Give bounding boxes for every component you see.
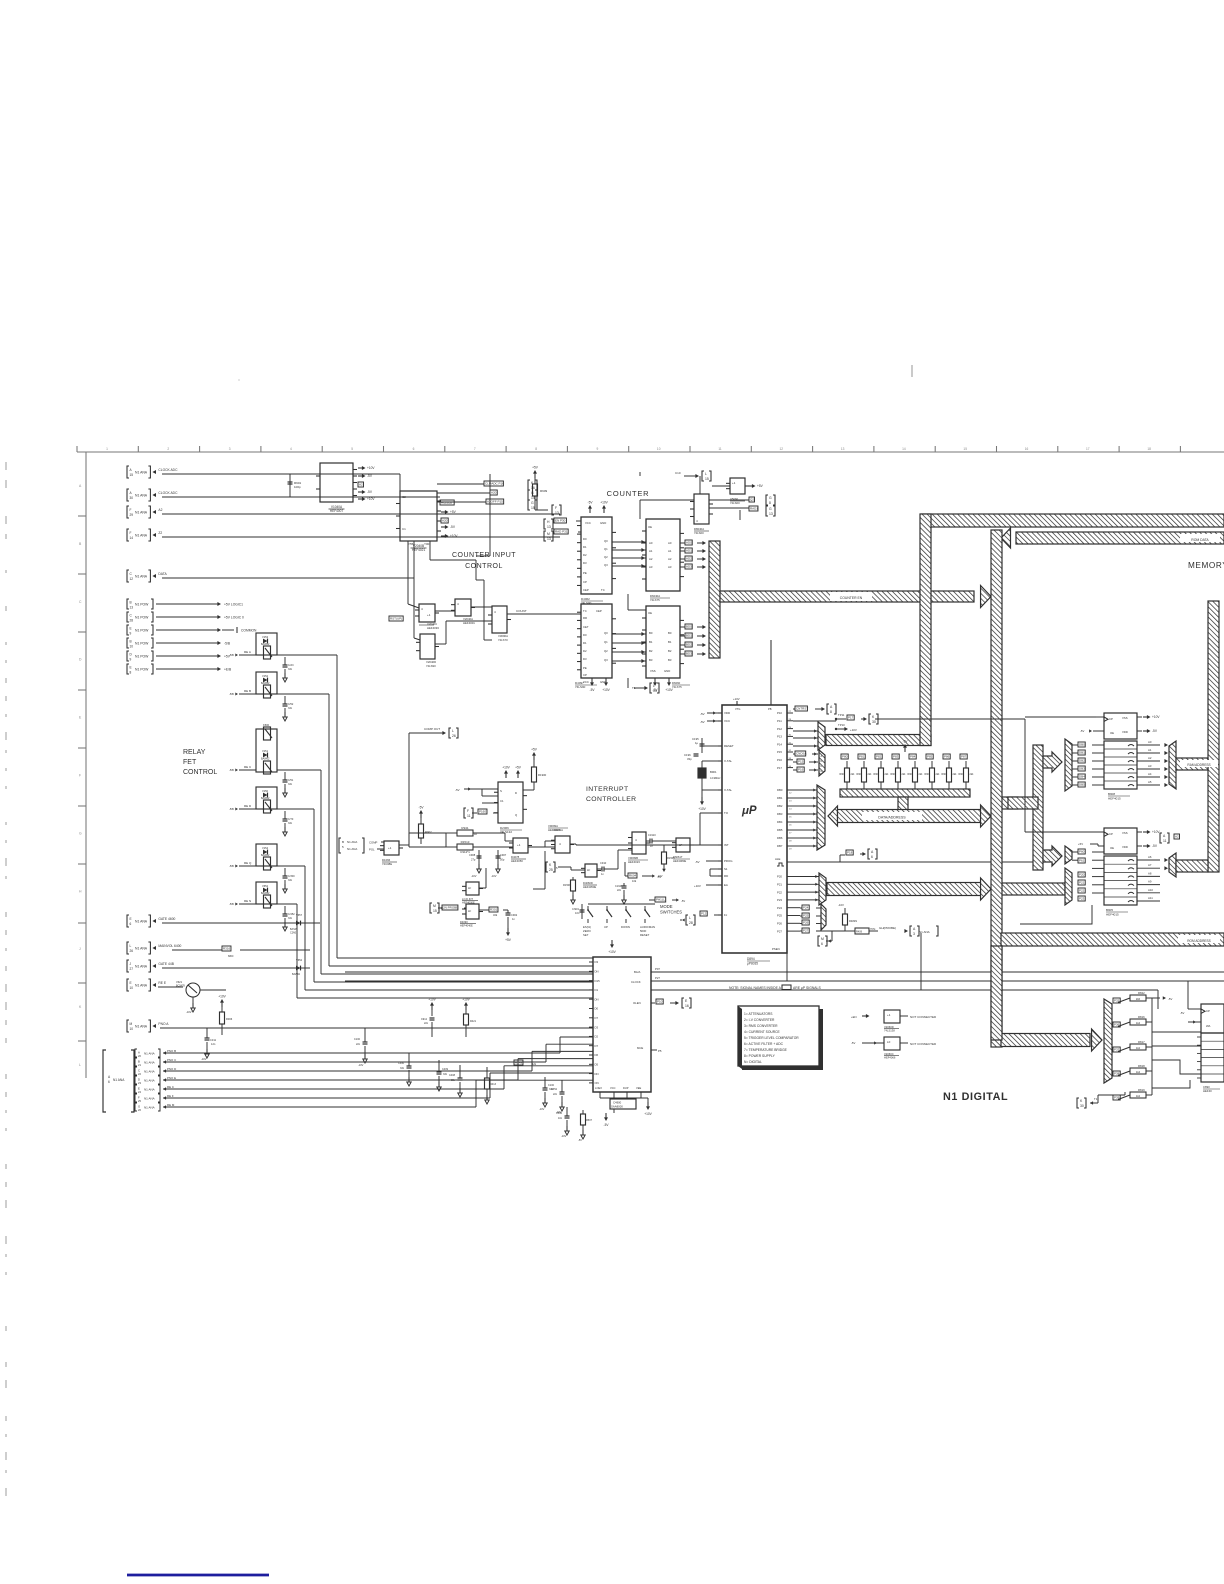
caps C100 area <box>364 1028 366 1042</box>
svg-text:R413: R413 <box>490 1083 497 1086</box>
connector GATE 4600 [E/6] <box>127 915 129 927</box>
svg-text:P24: P24 <box>803 906 809 910</box>
svg-text:N1 ANA: N1 ANA <box>113 1078 125 1082</box>
svg-text:RAD P31: RAD P31 <box>555 530 568 534</box>
svg-text:A10: A10 <box>1148 888 1153 892</box>
svg-text:E: E <box>138 1087 140 1091</box>
svg-text:+E/B: +E/B <box>224 668 232 672</box>
svg-text:PNO E: PNO E <box>167 1076 176 1080</box>
svg-text:F: F <box>467 809 469 813</box>
svg-text:-5V: -5V <box>578 1139 582 1142</box>
boxed nets right of counter <box>749 497 754 502</box>
gate D4060E lower <box>466 882 479 895</box>
connector Z2 [F/14 N1 ANA] <box>127 529 129 541</box>
svg-text:LF: LF <box>679 843 683 847</box>
svg-text:+5V: +5V <box>450 510 457 514</box>
svg-text:26: 26 <box>130 949 134 953</box>
bracket K25 IR <box>546 862 548 872</box>
svg-text:3: 3 <box>913 932 915 936</box>
svg-text:V154: V154 <box>262 846 269 850</box>
svg-text:INTERRUPT: INTERRUPT <box>586 786 629 793</box>
svg-text:-10V: -10V <box>561 1135 567 1138</box>
svg-text:CNDSA: CNDSA <box>796 752 807 756</box>
svg-text:L: L <box>452 729 454 733</box>
svg-text:100p: 100p <box>294 485 301 489</box>
svg-text:PNO A: PNO A <box>158 1022 169 1026</box>
svg-text:33n: 33n <box>288 879 293 882</box>
svg-text:B905: B905 <box>1106 908 1113 912</box>
cap C910 series <box>597 868 602 870</box>
svg-text:P82: P82 <box>876 755 882 759</box>
funnel lower latch left B <box>1065 868 1072 905</box>
svg-text:R301: R301 <box>490 908 498 912</box>
wire ALE long <box>840 861 1035 863</box>
svg-text:ROM ADDRESS: ROM ADDRESS <box>1187 939 1211 943</box>
svg-text:R90: R90 <box>959 773 964 776</box>
wire HEF4021 down feeds <box>407 541 409 604</box>
svg-text:-5/B: -5/B <box>229 653 234 657</box>
svg-text:R90: R90 <box>857 773 862 776</box>
pullup resistor array R902-R909 <box>841 754 848 759</box>
svg-text:CONTROL: CONTROL <box>465 563 503 570</box>
svg-text:AD1: AD1 <box>686 549 692 553</box>
page speck <box>911 365 913 377</box>
svg-text:+1: +1 <box>517 843 521 847</box>
svg-text:15: 15 <box>705 477 709 481</box>
svg-text:-10V: -10V <box>186 1010 192 1014</box>
bus RAM ADDRESS out <box>1176 758 1208 770</box>
svg-text:PE: PE <box>583 571 587 575</box>
net CNTRST P10 <box>793 708 795 710</box>
svg-text:13: 13 <box>547 537 551 541</box>
svg-text:74LS138: 74LS138 <box>884 1029 895 1033</box>
svg-text:C/901: C/901 <box>572 907 579 911</box>
group bracket N1 ANA lower <box>103 1050 106 1112</box>
svg-text:N1 DIGITAL: N1 DIGITAL <box>943 1091 1008 1103</box>
svg-text:SAA8000: SAA8000 <box>611 1105 623 1109</box>
svg-text:-5V: -5V <box>450 525 456 529</box>
svg-text:9: 9 <box>130 658 132 662</box>
wire T1 out <box>627 678 629 688</box>
svg-text:D: D <box>821 765 823 768</box>
svg-text:7: 7 <box>474 447 476 451</box>
svg-text:L: L <box>79 1063 81 1067</box>
svg-text:6: 6 <box>821 942 823 946</box>
svg-text:P17: P17 <box>848 716 854 720</box>
svg-text:+10V: +10V <box>602 688 610 692</box>
resistors R822 R816-R819 <box>1113 998 1120 1003</box>
uP T0 INT wires <box>700 812 718 814</box>
boxed nets P24-P27 <box>802 905 809 910</box>
svg-text:13: 13 <box>547 525 551 529</box>
funnel uP P2 low <box>821 904 826 930</box>
svg-text:RE N: RE N <box>244 899 251 903</box>
svg-text:B3: B3 <box>668 658 672 662</box>
svg-text:Q0: Q0 <box>604 539 608 543</box>
wire BA CLOCK outs <box>650 971 652 973</box>
svg-text:HEF4023: HEF4023 <box>548 828 560 832</box>
IC B908 HEF4015 upper latch control <box>1104 713 1137 739</box>
svg-text:L: L <box>653 684 655 688</box>
net Fc boxed <box>700 911 707 916</box>
svg-text:DATA: DATA <box>158 572 167 576</box>
svg-text:HEF4093: HEF4093 <box>427 626 439 630</box>
IC C890 right edge top <box>1201 1004 1224 1033</box>
svg-text:P23: P23 <box>777 898 782 902</box>
svg-text:74LS70: 74LS70 <box>498 638 508 642</box>
svg-text:N1 POW: N1 POW <box>135 616 149 620</box>
IC V9099B HEF4023 <box>632 832 646 854</box>
svg-text:DN: DN <box>595 970 599 974</box>
svg-text:10: 10 <box>657 447 661 451</box>
svg-text:CP: CP <box>1109 717 1113 721</box>
svg-text:INT: INT <box>724 843 729 847</box>
svg-text:E: E <box>130 627 132 631</box>
res cap pair x409 <box>431 1004 433 1010</box>
svg-text:COMP: COMP <box>369 841 378 845</box>
svg-text:N1 ANA: N1 ANA <box>347 840 357 844</box>
svg-text:DB0: DB0 <box>777 788 783 792</box>
svg-text:COMMON: COMMON <box>241 629 257 633</box>
svg-text:HEF4007: HEF4007 <box>330 509 344 513</box>
svg-text:15: 15 <box>531 506 535 510</box>
svg-text:-5V: -5V <box>1152 844 1158 848</box>
svg-text:P07: P07 <box>655 967 660 971</box>
svg-text:6: 6 <box>871 855 873 859</box>
svg-text:RE E: RE E <box>158 981 166 985</box>
svg-text:D5: D5 <box>595 1063 599 1067</box>
caps C506 R507 under IC <box>566 1107 568 1116</box>
svg-text:RD: RD <box>724 874 728 878</box>
svg-text:30: 30 <box>872 720 876 724</box>
boxed net EN P30 <box>544 519 546 529</box>
svg-text:MODE: MODE <box>660 904 673 909</box>
svg-text:AD3: AD3 <box>686 565 692 569</box>
svg-text:N1 POW: N1 POW <box>135 642 149 646</box>
svg-text:+1: +1 <box>732 481 736 485</box>
wire resistor column join <box>1151 998 1153 1095</box>
gate V9099A HEF4023 <box>555 836 570 853</box>
wire DATA into gates <box>408 577 414 579</box>
svg-text:A2: A2 <box>359 483 363 487</box>
svg-text:RE A: RE A <box>244 650 251 654</box>
svg-text:+1: +1 <box>388 846 392 850</box>
svg-text:Q3: Q3 <box>604 658 608 662</box>
svg-text:12: 12 <box>130 577 134 581</box>
svg-text:P22: P22 <box>1079 889 1085 893</box>
svg-text:N1 ANA: N1 ANA <box>135 575 148 579</box>
relay trunk verticals <box>336 655 338 958</box>
svg-text:-5V: -5V <box>1180 1011 1184 1015</box>
svg-text:C408: C408 <box>449 1074 456 1077</box>
latch A output boxed nets <box>685 540 692 545</box>
svg-text:+10V: +10V <box>367 497 375 501</box>
boxed net A20 <box>490 490 497 495</box>
svg-text:32k: 32k <box>493 913 498 917</box>
svg-text:DB4: DB4 <box>777 820 783 824</box>
svg-text:13: 13 <box>769 512 773 516</box>
svg-text:D1: D1 <box>595 988 599 992</box>
svg-text:D3: D3 <box>595 1025 599 1029</box>
svg-text:Q2: Q2 <box>604 555 608 559</box>
svg-text:PH1LL: PH1LL <box>656 898 666 902</box>
svg-text:VEE: VEE <box>636 1086 641 1090</box>
svg-text:P87: P87 <box>961 755 967 759</box>
svg-text:Q1: Q1 <box>604 547 608 551</box>
svg-text:14: 14 <box>531 496 535 500</box>
svg-text:N1 ANA: N1 ANA <box>135 920 148 924</box>
svg-text:N1 ANA: N1 ANA <box>144 1061 155 1065</box>
svg-text:9: 9 <box>130 632 132 636</box>
svg-text:+5V LOGIC 0: +5V LOGIC 0 <box>224 616 244 620</box>
net ALE P18 <box>800 861 840 863</box>
IC B905 HEF4015 lower latch body <box>1104 856 1137 905</box>
latch B output boxed nets <box>685 624 692 629</box>
wire interrupt cluster joins <box>399 844 409 846</box>
svg-text:N1 POW: N1 POW <box>135 668 149 672</box>
svg-text:R482N: R482N <box>849 919 857 923</box>
svg-text:C506: C506 <box>556 1112 563 1115</box>
svg-text:-10V: -10V <box>201 1057 207 1061</box>
svg-text:P20: P20 <box>1079 873 1085 877</box>
svg-text:R409: R409 <box>856 931 863 934</box>
svg-text:P10: P10 <box>657 1000 663 1004</box>
funnel uP ADDR <box>819 750 825 776</box>
net P160 F11 <box>464 808 466 818</box>
svg-text:P80: P80 <box>842 755 848 759</box>
svg-text:-5V: -5V <box>700 720 705 724</box>
svg-text:N1 POW: N1 POW <box>135 655 149 659</box>
svg-text:MEMORY: MEMORY <box>1188 561 1224 570</box>
svg-text:B2: B2 <box>649 649 653 653</box>
wire long net B <box>345 980 593 982</box>
svg-text:VCC: VCC <box>724 719 730 723</box>
svg-text:Fc: Fc <box>724 913 728 917</box>
svg-text:NOT CONNECTED: NOT CONNECTED <box>910 1042 937 1046</box>
svg-text:-5V: -5V <box>695 860 700 864</box>
svg-text:RELAY: RELAY <box>183 749 206 756</box>
svg-text:DATA/ADDRESS: DATA/ADDRESS <box>878 816 906 820</box>
svg-text:P5: P5 <box>658 1049 662 1053</box>
svg-text:33n: 33n <box>288 783 293 786</box>
svg-text:74C08E: 74C08E <box>382 862 392 866</box>
svg-text:22n: 22n <box>553 1093 558 1096</box>
svg-text:D: D <box>138 1078 140 1082</box>
svg-text:LF: LF <box>468 909 472 913</box>
svg-text:X-TAL: X-TAL <box>724 788 732 792</box>
svg-text:22n: 22n <box>424 1022 429 1025</box>
svg-text:D7: D7 <box>595 1044 599 1048</box>
wires DB to funnel <box>800 789 817 791</box>
wire ALE extension <box>1034 861 1036 863</box>
svg-text:MCE: MCE <box>637 1046 643 1050</box>
svg-text:2k6: 2k6 <box>1136 997 1141 1001</box>
connector DATA [C/12 N1 ANA] <box>127 570 129 582</box>
svg-text:R: R <box>821 770 823 773</box>
power input connectors N1 POW <box>127 599 129 609</box>
svg-text:22n: 22n <box>356 1043 361 1046</box>
svg-text:74LS75: 74LS75 <box>672 685 682 689</box>
svg-text:15: 15 <box>130 473 134 477</box>
svg-text:EN P30: EN P30 <box>555 519 566 523</box>
microprocessor U1 D894 uP8035 <box>722 705 787 953</box>
left margin dashed line <box>5 462 7 470</box>
svg-text:P83: P83 <box>893 755 899 759</box>
svg-text:30: 30 <box>1080 1104 1084 1108</box>
svg-text:-5V: -5V <box>851 1041 855 1045</box>
svg-text:27: 27 <box>130 967 134 971</box>
svg-text:PNO B: PNO B <box>167 1049 176 1053</box>
svg-text:AD2: AD2 <box>686 557 692 561</box>
svg-text:R90: R90 <box>891 773 896 776</box>
transistor bias parts <box>221 1001 223 1007</box>
svg-text:P21: P21 <box>777 883 782 887</box>
svg-text:33n: 33n <box>451 1079 456 1082</box>
svg-text:LF: LF <box>887 1040 891 1044</box>
connector A2 [F/29 N1 ANA] <box>127 506 129 518</box>
mode switch caps <box>581 904 583 919</box>
funnel bottom right <box>1104 999 1112 1083</box>
funnel uP port1 <box>818 722 825 750</box>
svg-text:P12: P12 <box>701 912 707 916</box>
svg-text:TP10: TP10 <box>838 723 845 727</box>
wire vertical CP feed right <box>1187 981 1189 1009</box>
svg-text:B2: B2 <box>668 649 672 653</box>
svg-text:BD0: BD0 <box>686 625 692 629</box>
cap C1910 <box>646 840 650 842</box>
svg-text:R306: R306 <box>226 1017 233 1021</box>
svg-text:2k4: 2k4 <box>885 773 890 776</box>
svg-text:PROG: PROG <box>724 859 733 863</box>
IC D2066 74LS132 <box>498 782 523 823</box>
svg-text:OE: OE <box>1110 731 1114 735</box>
svg-text:+10V: +10V <box>694 884 701 888</box>
svg-text:D3: D3 <box>583 561 587 565</box>
svg-text:74LS90: 74LS90 <box>575 685 586 689</box>
svg-text:1k4: 1k4 <box>1136 1070 1141 1074</box>
svg-text:L: L <box>689 916 691 920</box>
svg-text:F: F <box>138 1096 140 1100</box>
svg-text:OE: OE <box>648 525 652 529</box>
svg-text:P84: P84 <box>910 755 916 759</box>
cap C311 on PNO A <box>206 1028 208 1038</box>
svg-text:DB3: DB3 <box>1079 767 1085 771</box>
svg-text:1= ATTENUATORS: 1= ATTENUATORS <box>744 1012 773 1016</box>
svg-text:HEF4015: HEF4015 <box>1106 913 1119 917</box>
svg-text:N1 ANA: N1 ANA <box>135 947 148 951</box>
svg-text:P23: P23 <box>1079 897 1085 901</box>
caps C300 C409 <box>408 1053 410 1066</box>
svg-text:6800: 6800 <box>228 955 234 958</box>
svg-text:+10V: +10V <box>502 766 510 770</box>
svg-text:DB1: DB1 <box>1079 751 1085 755</box>
wire long net A <box>345 971 593 973</box>
svg-text:UP: UP <box>604 925 608 929</box>
svg-text:C/52: C/52 <box>288 703 294 706</box>
svg-text:5= TRIGGER LEVEL COMPARATOR: 5= TRIGGER LEVEL COMPARATOR <box>744 1036 799 1040</box>
svg-text:VCC: VCC <box>585 521 591 525</box>
svg-text:OLEN: OLEN <box>633 1001 641 1005</box>
svg-text:2k4: 2k4 <box>919 773 924 776</box>
svg-text:BAW62: BAW62 <box>292 973 301 976</box>
svg-text:F: F <box>130 531 132 535</box>
svg-text:P86: P86 <box>944 755 950 759</box>
wire CP line upper latch <box>875 718 1025 720</box>
svg-text:R349: R349 <box>515 1061 523 1065</box>
IC B905 HEF4015 lower latch control <box>1104 828 1137 854</box>
svg-text:C910: C910 <box>600 861 607 865</box>
bus P2 ports <box>827 883 981 896</box>
svg-text:R822: R822 <box>1138 991 1145 995</box>
svg-text:4.19MHz: 4.19MHz <box>710 776 721 780</box>
svg-text:7= TEMPERATURE BRIDGE: 7= TEMPERATURE BRIDGE <box>744 1048 788 1052</box>
svg-text:μP8035: μP8035 <box>747 962 758 966</box>
svg-text:E: E <box>130 666 132 670</box>
IC V2040B HEF4021 <box>400 491 437 541</box>
svg-text:-10V: -10V <box>838 903 844 907</box>
svg-text:DOWN: DOWN <box>621 925 630 929</box>
svg-text:P21: P21 <box>1079 881 1085 885</box>
svg-text:Y00: Y00 <box>424 542 430 546</box>
wires funnel to right IC <box>1112 998 1125 1000</box>
gate D4090 HEF4040E <box>466 904 479 919</box>
bus DATA ADDRESS <box>828 806 838 826</box>
connector PNO A [M/10] <box>127 1020 129 1032</box>
svg-text:P60: P60 <box>1079 850 1085 854</box>
svg-text:-5V: -5V <box>700 712 705 716</box>
svg-text:L: L <box>705 472 707 476</box>
svg-text:LF: LF <box>468 886 472 890</box>
svg-text:10k: 10k <box>632 879 637 883</box>
svg-text:C311: C311 <box>210 1038 217 1042</box>
IC D4097 74LS90 counter B <box>581 604 612 678</box>
svg-text:P13: P13 <box>777 735 782 739</box>
gate V3090A 74LS70 <box>492 606 507 633</box>
svg-text:6: 6 <box>413 447 415 451</box>
wire long net C <box>353 989 593 991</box>
svg-text:A4: A4 <box>1148 772 1152 776</box>
svg-text:P24: P24 <box>777 906 782 910</box>
svg-text:3= RMS CONVERTER: 3= RMS CONVERTER <box>744 1024 778 1028</box>
svg-text:-5V: -5V <box>419 806 425 810</box>
net 2N PROBE M15 <box>430 903 432 913</box>
svg-text:R817: R817 <box>1138 1040 1145 1044</box>
svg-text:LOEX: LOEX <box>595 1086 602 1090</box>
wire V9099A to INT <box>570 844 718 845</box>
lower latch outputs A6-A11 <box>1137 859 1160 861</box>
svg-text:HEF4066: HEF4066 <box>884 1056 896 1060</box>
svg-text:G: G <box>769 496 772 500</box>
svg-text:COUNTER: COUNTER <box>607 489 650 498</box>
svg-text:VSS: VSS <box>650 669 656 673</box>
svg-text:RAD1: RAD1 <box>750 507 758 511</box>
svg-text:-5V: -5V <box>657 875 661 879</box>
svg-text:HEF4040E: HEF4040E <box>460 924 473 928</box>
svg-text:V621: V621 <box>176 980 183 984</box>
svg-text:GND: GND <box>600 521 606 525</box>
svg-text:Y55: Y55 <box>408 542 414 546</box>
svg-text:15: 15 <box>433 909 437 913</box>
svg-text:M: M <box>130 1022 133 1026</box>
svg-text:50p: 50p <box>500 858 505 862</box>
svg-text:CEP: CEP <box>596 609 602 613</box>
svg-text:ALE: ALE <box>775 857 781 861</box>
svg-text:S: S <box>500 789 502 793</box>
svg-text:R604: R604 <box>629 874 637 878</box>
svg-text:RAM ADDRESS: RAM ADDRESS <box>1187 763 1210 767</box>
svg-text:CLMADC P16: CLMADC P16 <box>485 482 504 486</box>
svg-text:AC21(2): AC21(2) <box>441 501 452 505</box>
